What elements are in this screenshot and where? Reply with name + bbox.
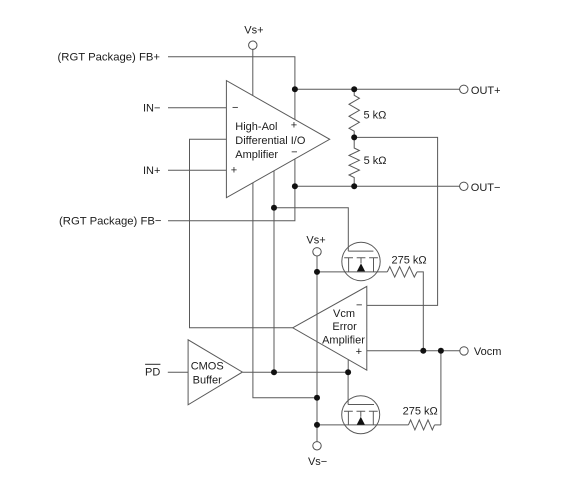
svg-text:+: + [291, 120, 297, 132]
svg-text:5 kΩ: 5 kΩ [364, 155, 387, 167]
wire OUT- rail [295, 185, 460, 187]
svg-text:(RGT Package) FB+: (RGT Package) FB+ [58, 52, 161, 64]
svg-text:−: − [291, 146, 297, 158]
wire PD branch to Q1 gate [274, 208, 348, 251]
wire Q1 source rail [317, 271, 387, 273]
resistor R2 5 kOhm lower [349, 137, 359, 186]
svg-text:+: + [231, 165, 237, 177]
svg-text:PD: PD [145, 367, 160, 379]
junction R1 top node [351, 86, 357, 92]
transistor Q1 upper MOSFET switch [342, 242, 380, 280]
transistor Q2 lower MOSFET switch [342, 396, 380, 434]
svg-text:Vs+: Vs+ [306, 234, 325, 246]
svg-text:IN+: IN+ [143, 165, 160, 177]
terminal Vocm [460, 347, 468, 355]
svg-text:+: + [356, 346, 362, 358]
wire Vs+ mid stub [316, 256, 318, 272]
wire OUT+ rail [295, 88, 460, 90]
junction R2 bottom node [351, 183, 357, 189]
junction supply tap node [314, 395, 320, 401]
wire Vocm line [367, 350, 460, 352]
junction PD branch node [271, 205, 277, 211]
svg-text:Vs−: Vs− [308, 456, 327, 468]
wire PD riser from buffer output into amp bottom edge [273, 171, 275, 372]
svg-text:−: − [356, 299, 362, 311]
terminal OUT+ [460, 85, 468, 93]
junction FB-/OUT- node [292, 183, 298, 189]
terminal OUT- [460, 182, 468, 190]
wire enable stub into Vcm amp bottom edge [347, 360, 349, 373]
svg-text:Buffer: Buffer [193, 374, 222, 386]
svg-text:Vcm: Vcm [333, 308, 355, 320]
wire Vs+ top stub into amplifier [252, 49, 254, 95]
junction Vs+ rail node [314, 269, 320, 275]
junction FB+/OUT+ node [292, 86, 298, 92]
svg-text:Vocm: Vocm [474, 346, 502, 358]
svg-text:275 kΩ: 275 kΩ [403, 406, 438, 418]
wire FB+ lead to OUT+ rail [168, 57, 295, 90]
svg-text:(RGT Package) FB−: (RGT Package) FB− [59, 216, 162, 228]
wire common-mode sense from 5k midpoint to Vcm amp inverting input [354, 137, 437, 305]
wire R3 right lead down to Vocm node [417, 272, 423, 351]
wire supply vertical to Vs- [316, 272, 318, 442]
svg-text:Differential I/O: Differential I/O [235, 135, 306, 147]
buffer U3 CMOS Buffer [188, 340, 242, 405]
resistor R4 275 kOhm lower [408, 420, 434, 430]
op-amp U2 Vcm Error Amplifier [293, 286, 367, 370]
svg-text:CMOS: CMOS [191, 360, 224, 372]
svg-text:−: − [232, 102, 238, 114]
op-amp U1 High-Aol Differential I/O Amplifier [226, 81, 329, 198]
svg-text:OUT−: OUT− [471, 182, 501, 194]
junction 5k midpoint node [351, 134, 357, 140]
wire negative output stub [294, 159, 296, 186]
svg-text:OUT+: OUT+ [471, 85, 501, 97]
svg-text:IN−: IN− [143, 102, 160, 114]
svg-text:275 kΩ: 275 kΩ [392, 254, 427, 266]
wire Q2 source rail [317, 424, 408, 426]
terminal Vs- [313, 442, 321, 450]
svg-text:Error: Error [332, 321, 357, 333]
junction Vocm node B [438, 348, 444, 354]
wire CMOS buffer output line [243, 371, 349, 373]
wire FB- lead to OUT- rail [168, 186, 295, 221]
junction Vocm node A [420, 348, 426, 354]
PD overline [145, 363, 160, 365]
wire PD input lead [168, 371, 188, 373]
wire R4 right riser to Vocm node [440, 351, 442, 425]
terminal Vs+ top [249, 41, 257, 49]
terminal Vs+ middle [313, 248, 321, 256]
wire Vcm error amp output to main amp mid input [190, 139, 293, 328]
wire Q2 gate drop [347, 372, 349, 404]
wire IN+ lead [168, 169, 226, 171]
svg-text:5 kΩ: 5 kΩ [364, 109, 387, 121]
wire amp tap to supply rail node [253, 183, 317, 398]
junction buffer output node A [271, 369, 277, 375]
wire positive output stub [294, 89, 296, 119]
wire R4 right lead [435, 424, 441, 426]
svg-text:Vs+: Vs+ [244, 25, 263, 37]
wire IN- lead [168, 107, 226, 109]
svg-text:Amplifier: Amplifier [322, 334, 365, 346]
junction buffer output node B [345, 369, 351, 375]
resistor R1 5 kOhm upper [349, 89, 359, 137]
svg-text:Amplifier: Amplifier [235, 149, 278, 161]
resistor R3 275 kOhm upper [387, 267, 417, 277]
junction Vs- rail node [314, 422, 320, 428]
svg-text:High-Aol: High-Aol [235, 121, 277, 133]
